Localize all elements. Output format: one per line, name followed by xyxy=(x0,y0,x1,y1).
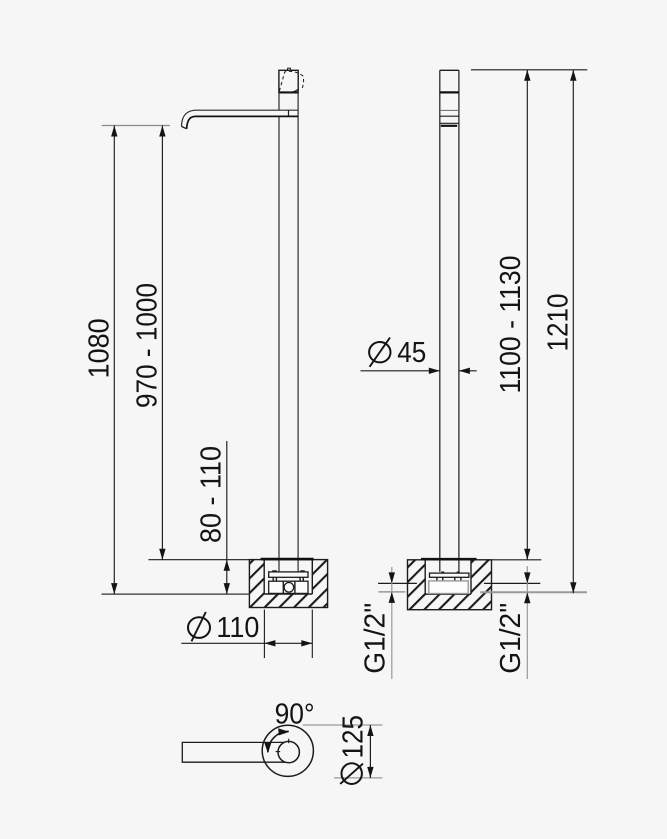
G1/2 right label xyxy=(495,603,527,674)
spout top view rectangle xyxy=(182,742,288,762)
svg-text:1210: 1210 xyxy=(543,294,575,352)
cover plate xyxy=(261,558,314,561)
dimension 1210 line xyxy=(570,70,576,594)
svg-text:45: 45 xyxy=(397,337,426,369)
joint dark band xyxy=(441,125,457,127)
base hatching left wall xyxy=(249,560,264,608)
svg-text:970 - 1000: 970 - 1000 xyxy=(132,283,164,408)
dimension 970-1000 line xyxy=(159,126,165,560)
handle knob xyxy=(279,70,298,92)
svg-text:125: 125 xyxy=(338,715,370,759)
svg-text:1080: 1080 xyxy=(84,318,116,378)
svg-text:110: 110 xyxy=(216,612,259,644)
spout tip extension line xyxy=(102,125,170,127)
base hatching bottom band xyxy=(249,594,327,608)
dimension 1210 label xyxy=(543,294,575,352)
dimension 1100-1130 line xyxy=(524,70,530,560)
plate legs xyxy=(273,577,303,581)
dimension 1080 label xyxy=(84,318,116,378)
base top view big circle xyxy=(262,725,313,776)
dimension diameter 125 label xyxy=(338,715,370,784)
handle knob top tab xyxy=(287,68,290,70)
right plate legs xyxy=(437,577,461,581)
svg-text:90°: 90° xyxy=(275,699,315,731)
dimension diameter 110 label xyxy=(188,612,259,644)
dimension 970-1000 extension line xyxy=(148,559,249,561)
right base outline xyxy=(408,560,492,610)
right lower valve box xyxy=(429,581,468,594)
dimension 80-110 line xyxy=(224,441,230,594)
diameter 125 extension lines xyxy=(303,725,383,778)
plate top marks xyxy=(272,570,305,572)
mounting plate bar xyxy=(269,572,308,577)
dimension diameter 110 extension lines xyxy=(264,610,312,659)
G1/2 left dimension xyxy=(389,567,395,679)
top extension line xyxy=(471,69,587,71)
base hatching right wall xyxy=(312,560,327,608)
90 degree label xyxy=(275,699,315,731)
right base hatching left wall xyxy=(408,560,426,610)
right recess right edge xyxy=(470,560,472,594)
right recess left edge xyxy=(424,560,426,594)
dimension 970-1000 label xyxy=(132,283,164,408)
lower valve box xyxy=(269,581,308,593)
handle knob dashed tilted outline xyxy=(279,71,303,91)
dimension 1080 line xyxy=(111,126,117,595)
dimension 1100-1130 extension line xyxy=(492,559,542,561)
svg-text:1100 - 1130: 1100 - 1130 xyxy=(495,256,527,394)
right base hatching right wall xyxy=(471,560,492,610)
column left edge xyxy=(278,93,280,572)
dimension 80-110 label xyxy=(196,446,228,543)
floor line left xyxy=(102,593,250,595)
recess left edge xyxy=(263,560,265,594)
knob joint thick line xyxy=(440,91,459,93)
spout joint tick xyxy=(288,110,290,116)
center ticks xyxy=(276,739,289,752)
rotation arc arrow xyxy=(264,728,289,753)
G1/2 left label xyxy=(360,603,392,674)
column top view small circle xyxy=(278,741,299,762)
G1/2 right dimension xyxy=(524,566,530,679)
dimension diameter 45 label xyxy=(369,337,426,369)
svg-text:80 - 110: 80 - 110 xyxy=(196,446,228,543)
right mounting plate bar xyxy=(430,573,469,577)
base block outline xyxy=(249,560,327,608)
valve circle xyxy=(284,583,294,593)
handle knob sweep arc xyxy=(286,89,298,93)
right cover plate xyxy=(421,558,477,560)
dimension diameter 125 line xyxy=(367,725,373,778)
right plate top marks xyxy=(441,572,460,574)
right base hatching bottom band xyxy=(408,594,492,610)
right recess bottom edge xyxy=(425,593,471,595)
dimension 1100-1130 label xyxy=(495,256,527,394)
dimension diameter 110 line xyxy=(181,640,312,646)
svg-text:G1/2": G1/2" xyxy=(360,603,392,674)
svg-text:G1/2": G1/2" xyxy=(495,603,527,674)
recess bottom edge xyxy=(264,593,312,595)
spout bottom line xyxy=(440,115,459,117)
joint line xyxy=(440,122,459,124)
spout tube xyxy=(182,110,299,129)
column outline xyxy=(440,70,459,571)
dimension diameter 45 line xyxy=(361,368,477,374)
G1/2 level line stubs xyxy=(378,582,540,584)
spout top line xyxy=(440,109,459,111)
floor line right figure xyxy=(378,591,587,593)
recess right edge xyxy=(311,560,313,594)
column right edge xyxy=(297,93,299,572)
